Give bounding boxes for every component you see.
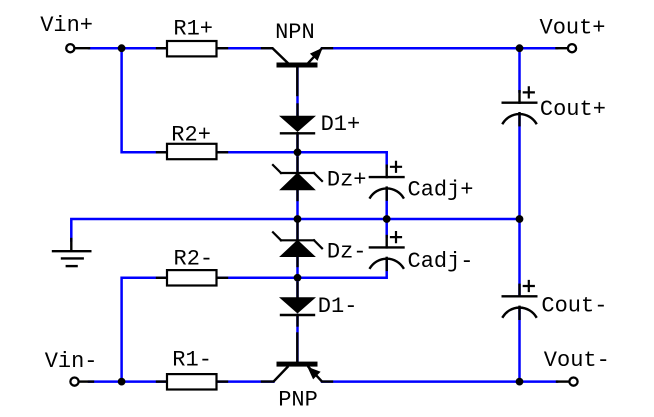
wire R2- rail + left vertical bottom: [122, 278, 298, 382]
svg-text:D1+: D1+: [321, 112, 361, 137]
ground: [53, 239, 90, 266]
wire Cadj+ branch bottom: [385, 188, 388, 219]
wire D1+ to node: [296, 133, 299, 173]
wire bottom rail left: [89, 380, 274, 383]
svg-text:R1-: R1-: [172, 347, 212, 372]
svg-text:Vin-: Vin-: [45, 349, 98, 374]
svg-text:R2-: R2-: [174, 247, 214, 272]
transistor Q2 PNP: [262, 334, 332, 382]
wire bottom rail right: [322, 380, 557, 383]
svg-text:Vout+: Vout+: [540, 16, 606, 41]
svg-text:R2+: R2+: [171, 123, 211, 148]
wire Cout- to bottom rail: [518, 308, 521, 382]
capacitor Cadj-: [370, 232, 404, 270]
terminal Vin-: [70, 378, 93, 386]
zener Dz+: [273, 158, 322, 201]
svg-text:Dz+: Dz+: [327, 168, 367, 193]
wire top rail right: [322, 47, 557, 50]
junction node Vin+: [118, 44, 126, 52]
junction node mid Cout: [516, 215, 524, 223]
svg-text:Dz-: Dz-: [327, 240, 367, 265]
svg-text:R1+: R1+: [173, 16, 213, 41]
transistor Q1 NPN: [262, 48, 332, 95]
junction node R2+/D1+/Dz+: [294, 148, 302, 156]
zener Dz-: [273, 223, 322, 267]
resistor R1+: [157, 41, 227, 56]
junction node Vin-: [118, 378, 126, 386]
wire Cadj- branch bottom: [298, 259, 387, 278]
wire Dz- anode to R2- rail: [296, 256, 299, 298]
junction node R2-/Dz-/D1-: [294, 274, 302, 282]
wire D1- to PNP base: [296, 315, 299, 362]
svg-text:Cadj-: Cadj-: [408, 249, 474, 274]
diode D1+: [281, 105, 314, 150]
capacitor Cadj+: [370, 162, 404, 200]
wire Cadj+ branch top: [385, 152, 388, 166]
junction node Vout-: [516, 378, 524, 386]
wire top rail left: [89, 47, 272, 50]
terminal Vout+: [557, 44, 577, 52]
svg-text:PNP: PNP: [278, 388, 318, 413]
svg-text:Cout+: Cout+: [540, 97, 606, 122]
resistor R2-: [157, 270, 227, 285]
junction node mid Cadj: [383, 215, 391, 223]
svg-text:Cadj+: Cadj+: [408, 177, 474, 202]
wire mid rail (ground net): [71, 219, 519, 241]
svg-text:Vin+: Vin+: [40, 13, 93, 38]
terminal Vout-: [557, 378, 578, 386]
wire NPN base to D1+: [296, 68, 299, 117]
svg-text:D1-: D1-: [318, 294, 358, 319]
capacitor Cout-: [503, 281, 537, 319]
resistor R2+: [157, 144, 227, 159]
diode D1-: [281, 283, 314, 326]
wire Cout+ to Cout-: [518, 114, 521, 296]
terminal Vin+: [66, 44, 89, 52]
wire Vout+ vertical to Cout+: [518, 48, 521, 91]
junction node Vout+: [516, 44, 524, 52]
capacitor Cout+: [503, 87, 537, 125]
wire Vin+ to R2+ (left vertical + R2+ rail): [122, 48, 387, 152]
wire Cadj- branch top: [385, 219, 388, 237]
wire Dz+ anode to mid rail: [296, 190, 299, 241]
svg-text:NPN: NPN: [275, 20, 315, 45]
junction node mid center: [294, 215, 302, 223]
svg-text:Vout-: Vout-: [544, 348, 610, 373]
resistor R1-: [157, 374, 227, 389]
svg-text:Cout-: Cout-: [541, 293, 607, 318]
